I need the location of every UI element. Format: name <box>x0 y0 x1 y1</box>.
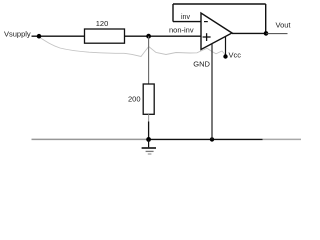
svg-text:non-inv: non-inv <box>169 25 194 34</box>
svg-text:GND: GND <box>193 60 210 69</box>
svg-text:Vcc: Vcc <box>229 51 242 60</box>
svg-text:Vout: Vout <box>276 21 292 30</box>
svg-text:Vsupply: Vsupply <box>4 30 31 39</box>
svg-text:inv: inv <box>181 14 190 21</box>
svg-text:200: 200 <box>128 95 141 104</box>
svg-text:120: 120 <box>96 19 109 28</box>
